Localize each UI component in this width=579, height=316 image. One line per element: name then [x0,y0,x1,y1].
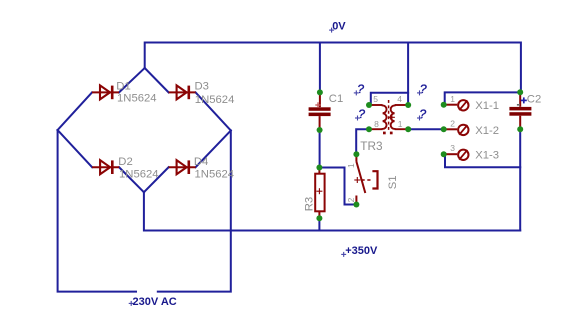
svg-text:?: ? [357,82,364,96]
svg-text:R3: R3 [303,197,315,211]
svg-text:230V AC: 230V AC [133,296,177,308]
svg-text:1N5624: 1N5624 [195,94,235,106]
svg-text:?: ? [419,107,426,121]
svg-text:1N5624: 1N5624 [119,169,159,181]
svg-text:S1: S1 [387,175,399,189]
svg-text:8: 8 [374,119,379,129]
svg-text:C2: C2 [527,93,541,105]
svg-text:4: 4 [397,94,402,104]
svg-text:?: ? [358,107,365,121]
svg-text:X1-1: X1-1 [475,100,499,112]
svg-text:X1-2: X1-2 [475,125,499,137]
svg-text:1N5624: 1N5624 [117,93,157,105]
svg-text:D1: D1 [116,80,130,92]
svg-text:1N5624: 1N5624 [195,169,235,181]
svg-text:2: 2 [450,119,455,129]
svg-text:D2: D2 [118,156,132,168]
svg-text:5: 5 [373,94,378,104]
svg-text:1: 1 [346,163,356,168]
svg-text:C1: C1 [329,93,343,105]
svg-text:?: ? [420,82,427,96]
svg-text:1: 1 [398,119,403,129]
svg-text:D4: D4 [194,156,208,168]
svg-text:+350V: +350V [345,245,378,257]
svg-text:D3: D3 [195,80,209,92]
svg-text:3: 3 [450,143,455,153]
svg-text:TR3: TR3 [360,139,383,153]
svg-text:2: 2 [346,197,356,202]
svg-text:1: 1 [450,94,455,104]
svg-text:0V: 0V [332,21,346,33]
svg-text:X1-3: X1-3 [475,150,499,162]
